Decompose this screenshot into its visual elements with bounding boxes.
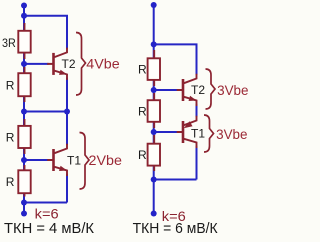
svg-text:3Vbe: 3Vbe [217, 82, 249, 98]
node: mid vertical junction [64, 109, 70, 115]
svg-text:R: R [6, 175, 15, 189]
wire: top branch to T2 collector [154, 44, 197, 75]
wire: bottom branch [24, 202, 67, 204]
node: right top junction [151, 41, 157, 47]
svg-text:2Vbe: 2Vbe [89, 152, 123, 168]
transistor T1 left [47, 144, 67, 176]
svg-text:k=6: k=6 [35, 206, 59, 222]
node: left bottom terminal [21, 211, 27, 217]
brace 3Vbe top [206, 69, 216, 109]
resistor R4 value R [18, 165, 30, 197]
svg-text:3Vbe: 3Vbe [216, 126, 248, 142]
brace 3Vbe bottom [204, 115, 214, 152]
wire: emitter T2 down to T1 collector [66, 78, 68, 145]
svg-text:R: R [6, 130, 15, 144]
wire: top branch to T2 collector [24, 16, 67, 49]
resistor R6 value R [148, 93, 160, 128]
svg-text:4Vbe: 4Vbe [86, 55, 120, 71]
svg-text:T1: T1 [191, 126, 205, 140]
resistor R5 value R [148, 50, 160, 86]
wire: left rail vertical [23, 6, 25, 214]
svg-text:T1: T1 [67, 153, 81, 167]
svg-text:ТКН = 6 мВ/К: ТКН = 6 мВ/К [133, 220, 218, 237]
transistor T1 right [177, 116, 197, 148]
wire: T1 emitter down right [196, 146, 198, 180]
svg-text:R: R [138, 104, 147, 118]
node: right top terminal [151, 2, 157, 8]
svg-text:3R: 3R [2, 36, 16, 50]
wire: T2 emitter to T1 collector right [196, 104, 198, 117]
wire: right rail vertical [153, 5, 155, 214]
node: right bottom terminal [151, 211, 157, 217]
transistor T2 right [177, 74, 197, 106]
node: T2 base junction right [151, 87, 157, 93]
node: T1 base junction right [151, 129, 157, 135]
wire: bottom branch right [154, 179, 197, 181]
wire: T2 base right [154, 89, 178, 91]
resistor R1 value 3R [18, 23, 30, 59]
node: T2 base junction [21, 61, 27, 67]
wire: T1 emitter down [66, 174, 68, 203]
svg-text:T2: T2 [191, 83, 205, 97]
brace 2Vbe [80, 133, 90, 190]
resistor R2 value R [18, 67, 30, 102]
svg-text:R: R [138, 148, 147, 162]
node: bottom junction [21, 200, 27, 206]
resistor R7 value R [148, 135, 160, 171]
wire: T1 base [24, 159, 49, 161]
node: bottom junction right [151, 177, 157, 183]
svg-text:R: R [138, 63, 147, 77]
node: T1 base junction [21, 157, 27, 163]
svg-text:ТКН = 4 мВ/К: ТКН = 4 мВ/К [4, 220, 94, 237]
wire: T2 base [24, 63, 49, 65]
svg-text:R: R [6, 79, 15, 93]
wire: mid branch [24, 111, 67, 113]
node: left top terminal [21, 3, 27, 9]
brace 4Vbe [76, 33, 86, 96]
wire: T1 base right [154, 131, 178, 133]
transistor T2 left [47, 48, 67, 80]
svg-text:T2: T2 [62, 57, 76, 71]
node: mid rail junction [21, 109, 27, 115]
node: left top junction [21, 13, 27, 19]
resistor R3 value R [18, 119, 30, 154]
